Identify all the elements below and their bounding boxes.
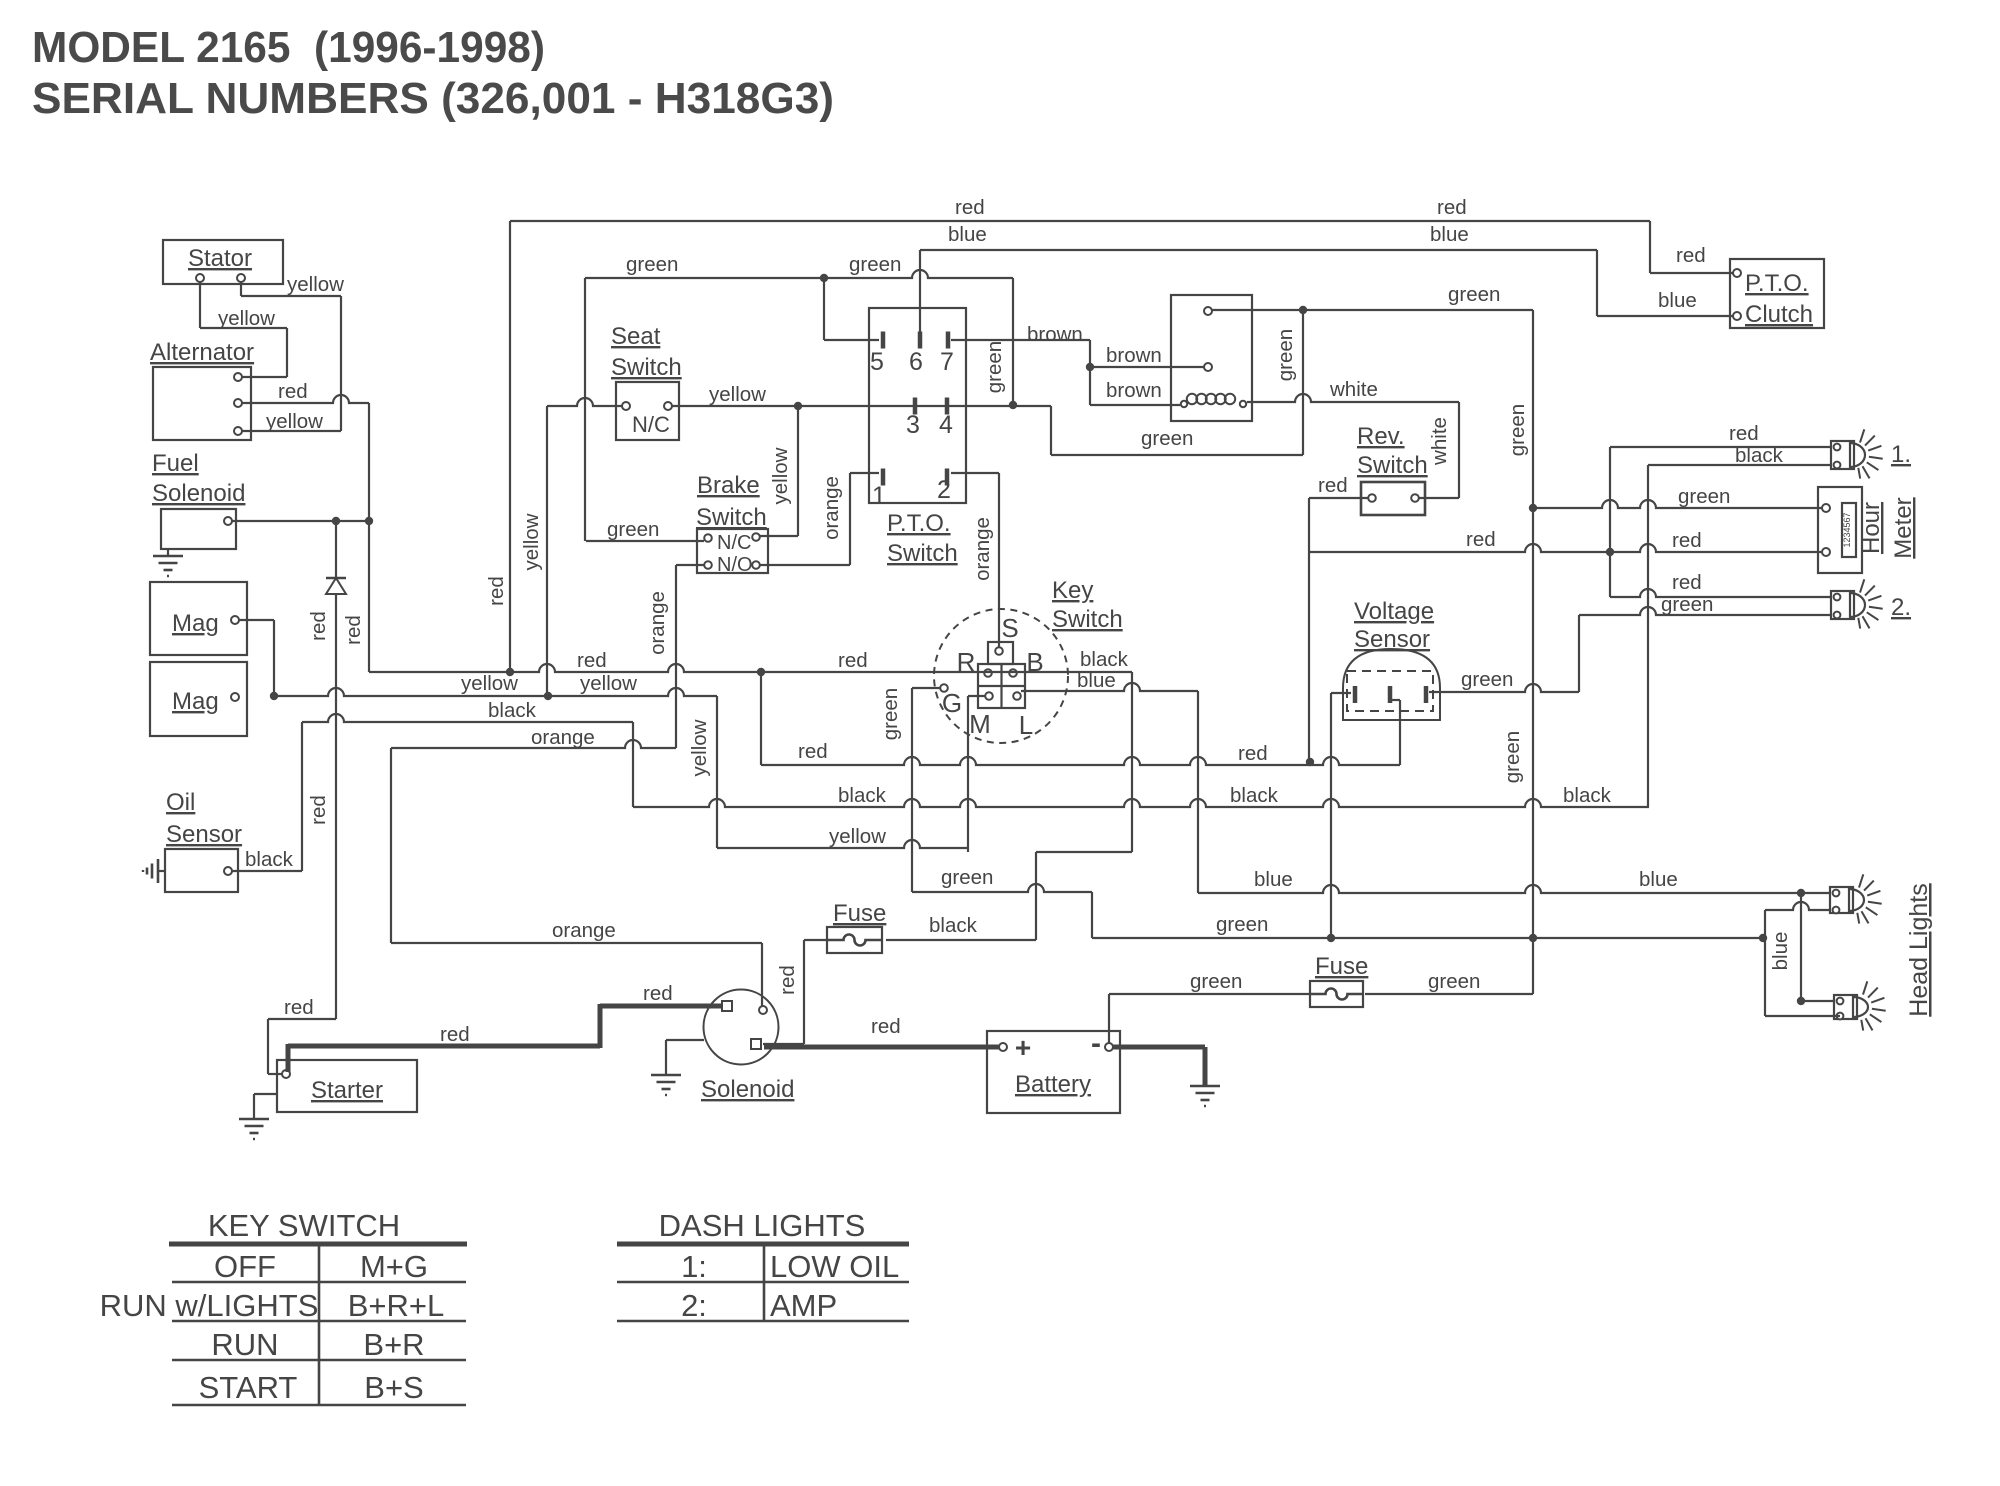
svg-text:M: M bbox=[969, 709, 991, 739]
svg-text:orange: orange bbox=[820, 476, 843, 540]
label green headlights run 2 bbox=[0, 0, 1, 1]
label yellow seat bbox=[709, 383, 766, 406]
node green/headlight junction bbox=[1759, 934, 1767, 942]
key switch S box bbox=[988, 642, 1013, 664]
label black lower 1 bbox=[838, 784, 887, 807]
alternator box bbox=[153, 367, 251, 440]
node red/lamp drop junction bbox=[1606, 548, 1614, 556]
label yellow stator jog bbox=[218, 307, 275, 330]
wire mag 1 bbox=[239, 620, 274, 696]
label white rotated bbox=[1428, 417, 1451, 466]
svg-text:yellow: yellow bbox=[266, 410, 323, 433]
svg-text:brown: brown bbox=[1106, 344, 1162, 367]
PTO clutch terminal 1 bbox=[1733, 269, 1741, 277]
key letter R bbox=[957, 647, 976, 677]
label orange rotated S bbox=[971, 517, 994, 581]
label red lamp1 bbox=[1729, 422, 1759, 445]
wire alternator red bbox=[242, 395, 369, 672]
svg-text:Solenoid: Solenoid bbox=[152, 480, 245, 507]
node green/pin5 junction bbox=[820, 274, 828, 282]
wire green fuse2 right bbox=[1365, 993, 1533, 995]
key terminal M bbox=[985, 692, 993, 700]
fuel solenoid box bbox=[161, 509, 236, 549]
svg-text:red: red bbox=[1672, 529, 1702, 552]
svg-text:Head Lights: Head Lights bbox=[1905, 883, 1933, 1016]
hour meter box bbox=[1818, 487, 1862, 573]
wire black B drop bbox=[1131, 672, 1133, 852]
svg-text:yellow: yellow bbox=[520, 513, 543, 570]
svg-text:Switch: Switch bbox=[611, 354, 682, 381]
svg-text:Switch: Switch bbox=[1052, 606, 1123, 633]
node red/mid junction bbox=[757, 668, 765, 676]
svg-text:Stator: Stator bbox=[188, 245, 252, 272]
label red battery cable bbox=[871, 1015, 901, 1038]
seat switch terminal right bbox=[664, 402, 672, 410]
svg-text:orange: orange bbox=[531, 726, 595, 749]
svg-text:Switch: Switch bbox=[1357, 452, 1428, 479]
wire green lamp2 bbox=[1579, 607, 1831, 692]
solenoid circle bbox=[704, 990, 779, 1065]
title line 1 bbox=[32, 23, 545, 72]
alternator terminal 1 bbox=[234, 373, 242, 381]
battery minus cable bbox=[1113, 1047, 1205, 1085]
wire black lamp1 bbox=[1648, 465, 1831, 807]
wire red long bbox=[369, 664, 1132, 672]
svg-text:red: red bbox=[307, 611, 330, 641]
svg-text:S: S bbox=[1001, 613, 1018, 643]
svg-text:green: green bbox=[1274, 329, 1297, 381]
svg-text:red: red bbox=[1238, 742, 1268, 765]
wire sensor left pin drop bbox=[1331, 693, 1351, 938]
svg-text:red: red bbox=[284, 996, 314, 1019]
oil sensor terminal bbox=[224, 867, 232, 875]
label blue headlights 1 bbox=[1254, 868, 1293, 891]
wire black upper bbox=[302, 714, 633, 807]
svg-text:red: red bbox=[1466, 528, 1496, 551]
wire orange lower bbox=[391, 942, 762, 944]
wire green headlight1 bbox=[1765, 902, 1830, 1016]
label green relay bbox=[1448, 283, 1500, 306]
wire alternator yellow bbox=[242, 430, 341, 432]
svg-text:Solenoid: Solenoid bbox=[701, 1076, 794, 1103]
wire row 5-7 right brown bbox=[951, 340, 1090, 405]
wire orange upper bbox=[391, 565, 676, 748]
pin 2 bbox=[937, 469, 951, 505]
label green rotated pto bbox=[983, 341, 1006, 393]
key letter B bbox=[1026, 647, 1043, 677]
pin 6 bbox=[909, 332, 923, 377]
key switch table rule 4 bbox=[172, 1404, 466, 1407]
wire stator left to alternator bbox=[200, 282, 287, 377]
brake switch terminal NO right bbox=[752, 561, 760, 569]
oil sensor box bbox=[165, 849, 238, 892]
label red rotated diode lower bbox=[307, 795, 330, 825]
fuel solenoid label bbox=[152, 450, 245, 507]
svg-text:black: black bbox=[838, 784, 887, 807]
ground oil sensor bbox=[143, 859, 158, 883]
svg-text:black: black bbox=[1735, 444, 1784, 467]
dash lights table header bbox=[659, 1208, 866, 1243]
fuse 1 bbox=[827, 927, 882, 953]
svg-text:orange: orange bbox=[971, 517, 994, 581]
label red top right bbox=[1437, 196, 1467, 219]
wire green headlight2 bbox=[1765, 1015, 1840, 1017]
label red starter cable bbox=[440, 1023, 470, 1046]
label orange rotated pin1 bbox=[820, 476, 843, 540]
fuse 2 label bbox=[1315, 953, 1368, 980]
svg-text:P.T.O.: P.T.O. bbox=[887, 510, 951, 537]
label red starter bbox=[284, 996, 314, 1019]
wire green top bbox=[585, 270, 1013, 541]
solenoid terminal top right bbox=[759, 1006, 767, 1014]
PTO switch box bbox=[869, 308, 966, 503]
head lights label bbox=[1905, 883, 1933, 1016]
wire B to battery bbox=[1036, 852, 1132, 940]
svg-text:blue: blue bbox=[1430, 223, 1469, 246]
wire blue drop to pin 6 bbox=[919, 250, 921, 336]
wire black lower bbox=[633, 799, 1649, 807]
relay terminal top bbox=[1204, 307, 1212, 315]
wire green voltage sensor bbox=[1429, 684, 1579, 692]
svg-text:Alternator: Alternator bbox=[150, 339, 254, 366]
svg-text:yellow: yellow bbox=[709, 383, 766, 406]
key switch table header bbox=[208, 1208, 400, 1243]
label red alternator bbox=[278, 380, 308, 403]
node blue/headlight junction bbox=[1797, 889, 1805, 897]
wire green brake NC bbox=[586, 540, 704, 542]
key terminal G bbox=[940, 684, 948, 692]
ground solenoid bbox=[651, 1075, 681, 1095]
wire brown to relay mid bbox=[1090, 366, 1204, 368]
voltage sensor pin right bbox=[1424, 686, 1429, 703]
svg-text:6: 6 bbox=[909, 348, 923, 376]
node green/long junction bbox=[1529, 934, 1537, 942]
svg-text:Rev.: Rev. bbox=[1357, 423, 1405, 450]
label black lower 3 bbox=[1563, 784, 1612, 807]
wire green down to rows bbox=[1012, 278, 1014, 404]
rev switch terminal left bbox=[1368, 494, 1376, 502]
label green headlights run 1 bbox=[1216, 913, 1268, 936]
wire white relay bbox=[1247, 394, 1459, 498]
svg-text:Battery: Battery bbox=[1015, 1071, 1091, 1098]
wire red mid-right bbox=[1309, 544, 1822, 552]
svg-text:red: red bbox=[440, 1023, 470, 1046]
brake switch terminal NC left bbox=[704, 534, 712, 542]
wire red mid bbox=[761, 672, 1400, 765]
svg-text:2.: 2. bbox=[1891, 594, 1911, 621]
label blue headlights 2 bbox=[1639, 868, 1678, 891]
svg-text:red: red bbox=[1672, 571, 1702, 594]
label red rotated alt-drop bbox=[342, 615, 365, 645]
label blue top left bbox=[948, 223, 987, 246]
wire green to pin 5 bbox=[824, 278, 879, 340]
dash lamp 1 label bbox=[1891, 441, 1911, 468]
label green rows bbox=[1141, 427, 1193, 450]
node red/topdrop junction bbox=[506, 668, 514, 676]
label yellow alternator bbox=[266, 410, 323, 433]
node brown junction bbox=[1086, 363, 1094, 371]
PTO clutch label bbox=[1745, 270, 1813, 328]
svg-text:+: + bbox=[1015, 1032, 1031, 1063]
svg-text:red: red bbox=[307, 795, 330, 825]
wire green headlights run bbox=[1092, 937, 1763, 939]
key letter G bbox=[942, 688, 962, 718]
label orange lower bbox=[552, 919, 616, 942]
starter terminal bbox=[282, 1070, 290, 1078]
label green fuse2 left bbox=[1190, 970, 1242, 993]
wire stator right yellow bbox=[241, 282, 341, 431]
svg-text:red: red bbox=[838, 649, 868, 672]
solenoid ground wire bbox=[666, 1040, 704, 1075]
voltage sensor body bbox=[1343, 649, 1440, 720]
label blue key bbox=[1077, 669, 1116, 692]
svg-text:N/O: N/O bbox=[717, 554, 753, 576]
wire key M bbox=[968, 696, 985, 852]
label blue rotated headlights bbox=[1769, 932, 1792, 971]
svg-text:Meter: Meter bbox=[1890, 497, 1917, 558]
stator box bbox=[163, 240, 283, 284]
label red rotated diode upper bbox=[307, 611, 330, 641]
rev switch label bbox=[1357, 423, 1428, 479]
svg-text:1234567: 1234567 bbox=[1842, 512, 1852, 547]
label blue top right bbox=[1430, 223, 1469, 246]
label red rev bbox=[1318, 474, 1348, 497]
oil sensor ground wire bbox=[158, 870, 165, 872]
label red rotated topdrop bbox=[485, 576, 508, 606]
wire red starter drop bbox=[0, 0, 1, 1]
svg-text:black: black bbox=[929, 914, 978, 937]
wire blue drop headlight2 bbox=[1801, 893, 1835, 1001]
ground battery bbox=[1190, 1086, 1220, 1106]
label green brake bbox=[607, 518, 659, 541]
svg-text:Mag: Mag bbox=[172, 610, 219, 637]
svg-text:Starter: Starter bbox=[311, 1077, 383, 1104]
wire thick starter cable bbox=[288, 1004, 721, 1072]
node green/sensor-drop junction bbox=[1327, 934, 1335, 942]
label black key bbox=[1080, 648, 1129, 671]
svg-text:red: red bbox=[485, 576, 508, 606]
label green rotated long lower bbox=[1501, 731, 1524, 783]
key switch row OFF bbox=[214, 1249, 428, 1284]
wire blue headlights bbox=[1198, 885, 1830, 893]
svg-text:Brake: Brake bbox=[697, 472, 760, 499]
node mag junction bbox=[270, 692, 278, 700]
svg-text:yellow: yellow bbox=[287, 273, 344, 296]
title line 2 bbox=[32, 74, 834, 123]
svg-text:KEY SWITCH: KEY SWITCH bbox=[208, 1208, 400, 1243]
svg-text:green: green bbox=[1461, 668, 1513, 691]
svg-text:B+R+L: B+R+L bbox=[348, 1288, 445, 1323]
svg-text:L: L bbox=[1019, 710, 1033, 740]
svg-text:black: black bbox=[1230, 784, 1279, 807]
svg-text:white: white bbox=[1329, 378, 1378, 401]
svg-text:red: red bbox=[776, 965, 799, 995]
key switch row RUN w/LIGHTS bbox=[100, 1288, 445, 1323]
svg-text:green: green bbox=[1661, 593, 1713, 616]
key switch row START bbox=[199, 1370, 424, 1405]
label green rotated G bbox=[879, 688, 902, 740]
dash lamp 2 label bbox=[1891, 594, 1911, 621]
label red top left bbox=[955, 196, 985, 219]
starter box bbox=[277, 1060, 417, 1112]
pin 4 bbox=[939, 398, 953, 440]
wire green top-right link bbox=[0, 0, 1, 1]
battery box bbox=[987, 1031, 1120, 1113]
voltage sensor pin mid bbox=[1388, 686, 1393, 703]
svg-text:yellow: yellow bbox=[218, 307, 275, 330]
svg-text:red: red bbox=[871, 1015, 901, 1038]
svg-text:Clutch: Clutch bbox=[1745, 301, 1813, 328]
svg-text:red: red bbox=[643, 982, 673, 1005]
voltage sensor label bbox=[1354, 598, 1434, 653]
key terminal R bbox=[984, 669, 992, 677]
svg-text:Fuel: Fuel bbox=[152, 450, 199, 477]
alternator terminal 2 bbox=[234, 399, 242, 407]
key switch table top rule bbox=[169, 1242, 467, 1247]
key letter L bbox=[1019, 710, 1033, 740]
svg-text:green: green bbox=[607, 518, 659, 541]
wire yellow drop to brake bbox=[760, 406, 798, 536]
label green sensor bbox=[1461, 668, 1513, 691]
svg-text:green: green bbox=[879, 688, 902, 740]
svg-text:red: red bbox=[955, 196, 985, 219]
brake switch terminal NO left bbox=[704, 561, 712, 569]
svg-text:white: white bbox=[1428, 417, 1451, 466]
dash lights table divider bbox=[763, 1244, 766, 1321]
label yellow stator bbox=[287, 273, 344, 296]
svg-text:red: red bbox=[1318, 474, 1348, 497]
wire sensor mid pin drop bbox=[1391, 700, 1400, 765]
svg-text:OFF: OFF bbox=[214, 1249, 276, 1284]
label green rotated long upper bbox=[1506, 404, 1529, 456]
label yellow long 1 bbox=[461, 672, 518, 695]
label brown 2 bbox=[1106, 344, 1162, 367]
label brown 1 bbox=[1027, 323, 1083, 346]
dash lamp 1 bbox=[1831, 429, 1883, 478]
wire key G bbox=[912, 688, 940, 892]
wire red to clutch bbox=[1650, 272, 1733, 274]
svg-text:1.: 1. bbox=[1891, 441, 1911, 468]
node blue/headlight2 junction bbox=[1797, 997, 1805, 1005]
seat switch label bbox=[611, 323, 682, 381]
wire green fuse2 left bbox=[1109, 994, 1310, 1043]
battery terminal plus bbox=[999, 1032, 1031, 1063]
label red long 2 bbox=[838, 649, 868, 672]
stator terminal left bbox=[196, 274, 204, 282]
fuel solenoid ground wire bbox=[167, 549, 169, 556]
key terminal L bbox=[1013, 692, 1021, 700]
ground fuel solenoid bbox=[153, 556, 183, 576]
label green G bbox=[941, 866, 993, 889]
svg-text:-: - bbox=[1091, 1027, 1101, 1060]
node green/rows junction bbox=[1009, 401, 1017, 409]
node red/sensor junction bbox=[1306, 758, 1314, 766]
dash lights row 2 bbox=[681, 1288, 837, 1323]
svg-text:red: red bbox=[278, 380, 308, 403]
svg-text:B+S: B+S bbox=[364, 1370, 423, 1405]
svg-text:red: red bbox=[1676, 244, 1706, 267]
wire red lamp1 bbox=[1610, 447, 1831, 597]
key terminal B bbox=[1009, 669, 1017, 677]
svg-text:Switch: Switch bbox=[887, 540, 958, 567]
svg-text:yellow: yellow bbox=[829, 825, 886, 848]
key switch table rule 1 bbox=[172, 1281, 466, 1284]
wire orange left drop bbox=[390, 748, 392, 943]
svg-text:LOW OIL: LOW OIL bbox=[770, 1249, 899, 1284]
svg-text:N/C: N/C bbox=[632, 412, 670, 437]
label green hour meter bbox=[1678, 485, 1730, 508]
label black lamp1 bbox=[1735, 444, 1784, 467]
svg-text:G: G bbox=[942, 688, 962, 718]
wire green relay top bbox=[1212, 309, 1533, 311]
PTO clutch terminal 2 bbox=[1733, 312, 1741, 320]
svg-text:black: black bbox=[488, 699, 537, 722]
svg-text:black: black bbox=[1080, 648, 1129, 671]
label red mid-right 1 bbox=[1466, 528, 1496, 551]
solenoid terminal bottom bbox=[751, 1039, 761, 1049]
label red rotated fuse1 bbox=[776, 965, 799, 995]
wire blue to clutch bbox=[1597, 315, 1733, 317]
svg-text:blue: blue bbox=[1658, 289, 1697, 312]
seat switch terminal left bbox=[622, 402, 630, 410]
key switch row RUN bbox=[211, 1327, 424, 1362]
svg-text:Mag: Mag bbox=[172, 688, 219, 715]
wire brake NO left orange bbox=[676, 564, 704, 566]
dash lamp 2 bbox=[1831, 579, 1883, 628]
label black upper bbox=[488, 699, 537, 722]
wire diode drop lower bbox=[335, 594, 337, 1019]
diode D1 bbox=[326, 578, 346, 594]
svg-text:7: 7 bbox=[940, 348, 954, 376]
svg-text:blue: blue bbox=[1769, 932, 1792, 971]
brake switch terminal NC right bbox=[752, 533, 760, 541]
fuse 2 bbox=[1310, 981, 1363, 1007]
mag 1 terminal bbox=[231, 616, 239, 624]
label yellow rotated drop bbox=[688, 719, 711, 776]
label yellow rotated brake bbox=[769, 447, 792, 504]
label orange upper bbox=[531, 726, 595, 749]
svg-text:red: red bbox=[798, 740, 828, 763]
node fuel/diode junction bbox=[332, 517, 340, 525]
label black oil bbox=[245, 848, 294, 871]
key switch table divider bbox=[318, 1244, 321, 1405]
wire green hour meter bbox=[1533, 500, 1822, 508]
svg-text:green: green bbox=[1216, 913, 1268, 936]
wire yellow to M bbox=[717, 840, 968, 848]
label yellow long 2 bbox=[580, 672, 637, 695]
hour meter terminal 1 bbox=[1822, 504, 1830, 512]
mag 2 box bbox=[150, 662, 247, 736]
svg-text:green: green bbox=[1506, 404, 1529, 456]
label red mid left bbox=[798, 740, 828, 763]
wire seat switch left bbox=[547, 398, 622, 696]
pin 7 bbox=[940, 332, 954, 377]
svg-text:green: green bbox=[1678, 485, 1730, 508]
seat switch box bbox=[616, 382, 679, 440]
svg-text:green: green bbox=[1448, 283, 1500, 306]
key switch main block bbox=[978, 664, 1025, 708]
svg-text:Hour: Hour bbox=[1858, 502, 1885, 554]
svg-text:red: red bbox=[1729, 422, 1759, 445]
headlight 1 bbox=[1830, 874, 1882, 923]
svg-text:orange: orange bbox=[552, 919, 616, 942]
wire red rev switch bbox=[1309, 498, 1368, 762]
svg-text:2:: 2: bbox=[681, 1288, 707, 1323]
label red mid right bbox=[1238, 742, 1268, 765]
svg-text:yellow: yellow bbox=[688, 719, 711, 776]
label red clutch bbox=[1676, 244, 1706, 267]
starter ground wire bbox=[254, 1094, 277, 1119]
